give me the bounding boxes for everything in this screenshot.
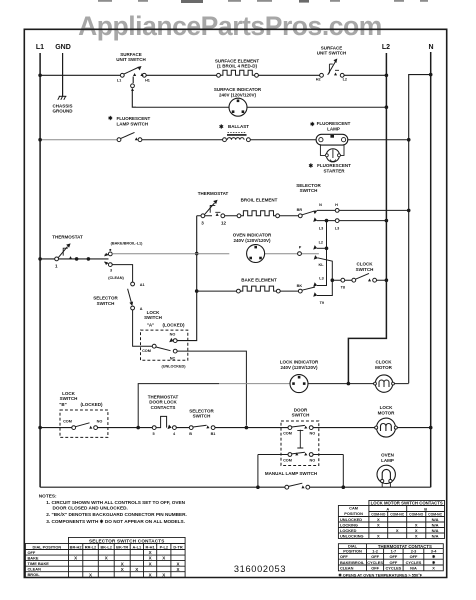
- row KL blade + V2: [317, 258, 332, 296]
- connector forks to 2 and 3: [105, 254, 109, 263]
- svg-text:✱: ✱: [310, 121, 315, 128]
- svg-text:X: X: [149, 561, 152, 566]
- svg-text:(BAKE/BROIL-L1): (BAKE/BROIL-L1): [111, 241, 144, 245]
- svg-text:NC: NC: [170, 356, 176, 360]
- svg-text:NO: NO: [170, 332, 176, 336]
- svg-text:BAKE/BROIL: BAKE/BROIL: [340, 560, 365, 565]
- svg-text:SWITCH: SWITCH: [60, 396, 78, 401]
- svg-text:CAM: CAM: [349, 506, 358, 511]
- svg-text:1-7: 1-7: [391, 549, 397, 554]
- svg-text:POSITION: POSITION: [344, 511, 363, 516]
- svg-text:X: X: [74, 556, 77, 561]
- svg-text:H1: H1: [145, 79, 150, 83]
- svg-text:TIME BAKE: TIME BAKE: [28, 561, 50, 566]
- clock switch row: [332, 279, 386, 281]
- svg-text:SWITCH: SWITCH: [292, 413, 310, 418]
- svg-text:RR-L2: RR-L2: [85, 544, 97, 549]
- svg-text:CYCLES: CYCLES: [386, 566, 402, 571]
- svg-text:X: X: [377, 517, 380, 522]
- svg-text:H: H: [335, 203, 338, 207]
- wire N jog to 408: [409, 75, 431, 384]
- svg-text:SWITCH: SWITCH: [356, 267, 374, 272]
- svg-text:240V (120V/120V): 240V (120V/120V): [280, 365, 318, 370]
- svg-text:BROIL ELEMENT: BROIL ELEMENT: [241, 198, 278, 203]
- svg-text:3-4: 3-4: [431, 549, 437, 554]
- svg-text:DIAL POSITION: DIAL POSITION: [33, 544, 62, 549]
- wire left rail: [40, 258, 108, 260]
- svg-text:NOTES:: NOTES:: [39, 493, 57, 498]
- svg-text:COM-NO: COM-NO: [409, 513, 423, 517]
- svg-text:X: X: [415, 523, 418, 528]
- svg-text:1-2: 1-2: [372, 549, 378, 554]
- selector row2 to L2: [317, 220, 386, 222]
- svg-text:X: X: [396, 528, 399, 533]
- svg-text:X: X: [415, 528, 418, 533]
- svg-text:L3: L3: [319, 226, 323, 230]
- wire bottom rail: [40, 486, 431, 488]
- svg-text:COM-NC: COM-NC: [428, 513, 442, 517]
- svg-text:CYCLES: CYCLES: [367, 560, 383, 565]
- svg-text:BAKE: BAKE: [28, 556, 39, 561]
- svg-text:SURFACE INDICATOR: SURFACE INDICATOR: [214, 87, 262, 92]
- svg-text:MOTOR: MOTOR: [378, 410, 395, 415]
- wire broil rail: [197, 215, 299, 217]
- svg-text:A: A: [386, 507, 389, 512]
- svg-text:(UNLOCKED): (UNLOCKED): [161, 365, 186, 369]
- svg-text:LAMP: LAMP: [381, 458, 394, 463]
- svg-text:OFF: OFF: [371, 566, 379, 571]
- svg-text:X: X: [135, 567, 138, 572]
- svg-text:3: 3: [110, 269, 112, 273]
- svg-text:L2: L2: [343, 77, 347, 81]
- svg-text:SELECTOR SWITCH CONTACTS: SELECTOR SWITCH CONTACTS: [89, 538, 165, 543]
- svg-text:X: X: [121, 561, 124, 566]
- svg-text:A1: A1: [140, 283, 145, 287]
- svg-text:LOCK INDICATOR: LOCK INDICATOR: [280, 359, 319, 364]
- svg-text:NO: NO: [310, 432, 316, 436]
- svg-text:OFF: OFF: [371, 554, 379, 559]
- svg-text:OFF: OFF: [28, 550, 36, 555]
- wire main door rail: [40, 427, 431, 429]
- svg-text:(1 BROIL 4 RED-D): (1 BROIL 4 RED-D): [217, 64, 257, 69]
- svg-text:X: X: [89, 572, 92, 577]
- svg-text:X: X: [432, 566, 435, 571]
- svg-text:BR-H2: BR-H2: [70, 544, 83, 549]
- svg-text:BK-L2: BK-L2: [100, 544, 112, 549]
- svg-text:"A": "A": [147, 322, 155, 327]
- svg-text:STARTER: STARTER: [324, 168, 346, 173]
- wire clean branch: [112, 265, 132, 282]
- svg-text:CONTACTS: CONTACTS: [151, 405, 176, 410]
- svg-text:L3: L3: [319, 277, 323, 281]
- svg-text:OFF: OFF: [410, 554, 418, 559]
- wire NC to door rail: [177, 351, 246, 425]
- svg-text:D-TR: D-TR: [173, 544, 182, 549]
- wire N vertical: [430, 52, 432, 487]
- svg-text:BALLAST: BALLAST: [228, 124, 249, 129]
- svg-text:3. COMPONENTS WITH ✱ DO NOT AP: 3. COMPONENTS WITH ✱ DO NOT APPEAR ON AL…: [46, 519, 185, 524]
- svg-text:UNLOCKING: UNLOCKING: [340, 534, 364, 539]
- svg-text:FLUORESCENT: FLUORESCENT: [117, 116, 151, 121]
- svg-text:BAKE ELEMENT: BAKE ELEMENT: [241, 277, 277, 282]
- svg-text:BK-TR: BK-TR: [116, 544, 128, 549]
- svg-text:A: A: [140, 307, 143, 311]
- svg-text:L2: L2: [319, 241, 323, 245]
- svg-text:LOCK: LOCK: [380, 405, 393, 410]
- svg-text:✱: ✱: [219, 124, 224, 131]
- svg-text:H2: H2: [316, 77, 321, 81]
- svg-text:LOCKING: LOCKING: [340, 523, 358, 528]
- svg-text:B: B: [189, 432, 192, 436]
- svg-text:CYCLES: CYCLES: [406, 560, 422, 565]
- svg-text:SWITCH: SWITCH: [193, 414, 211, 419]
- svg-text:✱: ✱: [108, 115, 113, 122]
- svg-text:OVEN INDICATOR: OVEN INDICATOR: [233, 232, 272, 237]
- svg-text:CLEAN: CLEAN: [340, 566, 354, 571]
- wire L2 vertical: [348, 53, 386, 384]
- svg-text:BROIL: BROIL: [28, 572, 41, 577]
- svg-text:COM: COM: [283, 458, 292, 462]
- svg-text:GND: GND: [55, 44, 71, 51]
- svg-text:P: P: [299, 245, 302, 249]
- svg-text:240V (120V/120V): 240V (120V/120V): [219, 93, 257, 98]
- svg-text:2-3: 2-3: [411, 549, 417, 554]
- svg-text:DOOR CLOSED AND UNLOCKED.: DOOR CLOSED AND UNLOCKED.: [53, 506, 128, 511]
- wire vertical from thermostat to bake: [177, 216, 197, 341]
- svg-text:X: X: [176, 561, 179, 566]
- svg-text:X: X: [162, 556, 165, 561]
- fluorescent starter: [320, 145, 344, 156]
- gray rail to oven indicator and P: [112, 253, 319, 255]
- svg-text:OFF: OFF: [340, 554, 348, 559]
- svg-text:2. "BK/X" DENOTES BACKGUARD CO: 2. "BK/X" DENOTES BACKGUARD CONNECTOR PI…: [46, 512, 187, 517]
- row L2 arrow: [317, 247, 327, 249]
- svg-text:AppliancePartsPros.com: AppliancePartsPros.com: [78, 11, 382, 41]
- svg-text:COM: COM: [63, 420, 72, 424]
- top cut-off text fragments: [98, 0, 428, 3]
- svg-text:L2: L2: [382, 44, 390, 51]
- svg-text:UNIT SWITCH: UNIT SWITCH: [317, 51, 347, 56]
- svg-text:12: 12: [221, 221, 227, 226]
- svg-text:LOCK MOTOR SWITCH CONTACTS: LOCK MOTOR SWITCH CONTACTS: [371, 501, 443, 506]
- svg-text:THERMOSTAT: THERMOSTAT: [198, 191, 229, 196]
- svg-text:5: 5: [153, 432, 155, 436]
- svg-text:OFF: OFF: [390, 560, 398, 565]
- svg-text:SWITCH: SWITCH: [300, 188, 318, 193]
- svg-text:CLEAN: CLEAN: [28, 567, 42, 572]
- wire indicator rail: [136, 106, 386, 108]
- svg-text:L3: L3: [335, 226, 339, 230]
- svg-text:T9: T9: [320, 301, 324, 305]
- svg-text:X: X: [162, 572, 165, 577]
- svg-text:UNLOCKED: UNLOCKED: [340, 517, 362, 522]
- svg-text:FLUORESCENT: FLUORESCENT: [317, 163, 351, 168]
- svg-text:BR: BR: [297, 208, 303, 212]
- svg-text:KL: KL: [318, 263, 324, 267]
- svg-text:(CLEAN): (CLEAN): [108, 276, 124, 280]
- svg-text:MANUAL LAMP SWITCH: MANUAL LAMP SWITCH: [265, 471, 317, 476]
- svg-text:T8: T8: [341, 286, 345, 290]
- oven thermostat symbol, pins 3 and 12: [201, 214, 205, 218]
- svg-text:COM-NO: COM-NO: [371, 513, 385, 517]
- wire drop from SW1 to indicator rail: [132, 77, 136, 108]
- svg-text:✱ OPENS AT OVEN TEMPERATURES >: ✱ OPENS AT OVEN TEMPERATURES > 550°F: [338, 572, 422, 577]
- svg-text:MOTOR: MOTOR: [375, 365, 392, 370]
- svg-text:OVEN: OVEN: [381, 452, 394, 457]
- P terminal: [298, 252, 302, 256]
- svg-text:SWITCH: SWITCH: [97, 301, 115, 306]
- svg-text:N/A: N/A: [432, 517, 439, 522]
- wire fluorescent rail: [40, 139, 117, 141]
- row L3 arrow (285.5): [313, 282, 317, 287]
- svg-text:N/A: N/A: [410, 566, 417, 571]
- svg-text:(LOCKED): (LOCKED): [81, 402, 103, 407]
- svg-text:N: N: [319, 203, 322, 207]
- svg-text:POSITION: POSITION: [343, 549, 362, 554]
- svg-text:P-L2: P-L2: [160, 544, 169, 549]
- wire L1 vertical: [39, 53, 41, 487]
- svg-text:GROUND: GROUND: [53, 109, 74, 114]
- svg-text:COM-NC: COM-NC: [390, 513, 404, 517]
- svg-text:X: X: [415, 534, 418, 539]
- mechanical link: [297, 430, 303, 448]
- wire surface rail: [40, 74, 386, 76]
- svg-text:316002053: 316002053: [234, 564, 286, 574]
- svg-text:BK: BK: [297, 284, 303, 288]
- svg-text:N: N: [428, 44, 433, 51]
- svg-text:NO: NO: [97, 420, 103, 424]
- svg-text:COM: COM: [283, 432, 292, 436]
- svg-text:B: B: [424, 507, 427, 512]
- svg-text:LAMP: LAMP: [327, 126, 340, 131]
- svg-text:SWITCH: SWITCH: [144, 315, 162, 320]
- door switch row2: [258, 454, 343, 456]
- svg-text:CLOCK: CLOCK: [376, 359, 393, 364]
- wire lock indicator rail: [138, 384, 219, 428]
- svg-text:L1: L1: [117, 79, 121, 83]
- svg-text:1. CIRCUIT SHOWN WITH ALL CONT: 1. CIRCUIT SHOWN WITH ALL CONTROLS SET T…: [46, 500, 185, 505]
- svg-text:THERMOSTAT CONTACTS: THERMOSTAT CONTACTS: [378, 544, 432, 549]
- svg-text:LOCKED: LOCKED: [340, 528, 357, 533]
- svg-text:240V (120V/120V): 240V (120V/120V): [233, 238, 271, 243]
- svg-text:A-L1: A-L1: [132, 544, 141, 549]
- svg-text:R-H1: R-H1: [146, 544, 156, 549]
- svg-text:X: X: [377, 534, 380, 539]
- row T9 arrow (295.5): [313, 292, 317, 297]
- svg-text:B1: B1: [211, 432, 216, 436]
- svg-text:X: X: [149, 550, 152, 555]
- svg-text:OFF: OFF: [390, 554, 398, 559]
- svg-text:L1: L1: [36, 44, 44, 51]
- svg-text:X: X: [377, 523, 380, 528]
- svg-text:X: X: [105, 556, 108, 561]
- svg-text:✱: ✱: [309, 163, 314, 170]
- svg-text:LAMP SWITCH: LAMP SWITCH: [117, 122, 149, 127]
- svg-text:THERMOSTAT: THERMOSTAT: [52, 235, 83, 240]
- chassis ground: [58, 96, 67, 100]
- wire GND vertical: [62, 53, 64, 96]
- svg-text:(LOCKED): (LOCKED): [163, 322, 185, 327]
- svg-text:"B": "B": [59, 402, 67, 407]
- selector vertical V1: [317, 221, 327, 286]
- wire A to lock switch COM: [133, 310, 153, 346]
- wire bake rail: [197, 290, 299, 292]
- svg-text:X: X: [149, 556, 152, 561]
- svg-text:N/A: N/A: [432, 523, 439, 528]
- svg-text:X: X: [176, 567, 179, 572]
- svg-text:COM: COM: [142, 349, 151, 353]
- svg-text:N/A: N/A: [432, 534, 439, 539]
- selector row1 to N: [317, 209, 409, 211]
- svg-text:UNIT SWITCH: UNIT SWITCH: [116, 57, 146, 62]
- svg-text:N/A: N/A: [432, 528, 439, 533]
- svg-text:X: X: [121, 567, 124, 572]
- svg-text:NO: NO: [310, 458, 316, 462]
- svg-text:X: X: [149, 572, 152, 577]
